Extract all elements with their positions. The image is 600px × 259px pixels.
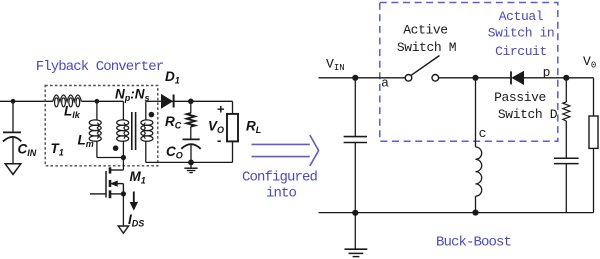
svg-text:Np:Ns: Np:Ns [115,87,150,104]
svg-text:Switch in: Switch in [488,26,555,41]
svg-text:Passive: Passive [494,90,546,105]
svg-text:-: - [217,133,221,148]
svg-text:into: into [266,186,297,202]
svg-text:a: a [381,76,389,91]
svg-text:Actual: Actual [499,9,544,24]
svg-text:p: p [543,65,551,80]
svg-text:Active: Active [403,23,447,38]
svg-text:Buck-Boost: Buck-Boost [436,235,511,251]
svg-text:c: c [479,126,487,141]
svg-text:Switch D: Switch D [498,107,558,122]
svg-text:Configured: Configured [242,170,318,186]
svg-text:Switch M: Switch M [397,40,456,55]
svg-text:Circuit: Circuit [495,44,547,59]
svg-text:+: + [217,102,225,117]
svg-text:Flyback Converter: Flyback Converter [36,59,164,75]
